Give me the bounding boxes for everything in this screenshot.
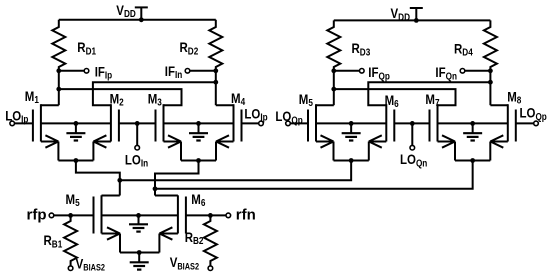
svg-text:rfp: rfp	[27, 207, 47, 224]
node IF_In cross-couple branch	[213, 80, 218, 85]
node VDD tap (right)	[414, 18, 419, 23]
node LO_In junction	[135, 121, 140, 126]
transistor M1 gate bar	[32, 110, 34, 142]
node M7-M8 bulk junction	[470, 121, 475, 126]
wire M5-M6 left source line	[316, 141, 334, 143]
wire M1-M2 tail bus	[58, 160, 93, 162]
wire M8 drain stub	[490, 104, 507, 106]
terminal rfp	[49, 213, 54, 218]
resistor RD1	[52, 20, 65, 71]
VDD supply symbol (left)	[135, 6, 148, 8]
wire IF_Qp to M7 drain (inner staple)	[334, 89, 456, 105]
node LO_Qn junction	[410, 121, 415, 126]
wire LO_Qn drop	[411, 123, 413, 145]
resistor RB2	[204, 215, 217, 266]
wire M8 gate to LO_Qp (right)	[516, 122, 534, 124]
node RD2 bottom / IF_In	[213, 68, 218, 73]
node M5-M6 bulk junction	[349, 121, 354, 126]
resistor RD3	[327, 20, 340, 70]
wire M7-M8 left source line	[438, 141, 456, 143]
wire IF_In riser	[215, 71, 217, 105]
ground RF tail	[138, 253, 140, 263]
wire M3-M4 right source drop	[215, 142, 217, 161]
wire IF_Qn to M6 drain (outer staple)	[368, 82, 490, 105]
wire M7-M8 right source line	[490, 141, 508, 143]
node M7-M8 tail junction	[470, 158, 475, 163]
wire RF M5 drain stub	[102, 195, 120, 197]
M3-M4 left source arrow	[168, 135, 181, 141]
terminal LO_Qn	[410, 145, 415, 150]
wire node N to M7-M8 tail (long)	[155, 161, 473, 189]
transistor M2 gate bar	[118, 110, 120, 142]
terminal IF_In	[185, 69, 190, 74]
wire M5-M6 left source drop	[333, 142, 335, 161]
transistor M2 channel bar	[110, 104, 112, 141]
wire M2 gate to M3 gate	[119, 122, 156, 124]
wire IF_Ip to M3 drain (inner staple)	[59, 89, 182, 105]
wire M1-M2 bulk	[41, 122, 111, 124]
wire RF pair bulk	[102, 214, 178, 216]
terminal VBIAS2 (left)	[68, 266, 73, 271]
node IF_Qn cross-couple branch	[488, 80, 493, 85]
transistor M6 (RF) gate bar	[185, 197, 187, 234]
M1-M2 left source arrow	[45, 135, 58, 141]
ground M5-M6 bulk	[350, 123, 352, 133]
wire M5-M6 tail bus	[334, 160, 369, 162]
wire RF tail bus	[120, 252, 159, 254]
node N branch junction	[153, 186, 158, 191]
VDD supply rail (Q-quad)	[334, 19, 491, 21]
wire LO_Qp to M5 gate	[290, 122, 308, 124]
node M3-M4 tail junction	[196, 158, 201, 163]
wire M6 gate to M7 gate	[394, 122, 429, 124]
transistor M8 gate bar	[515, 110, 517, 142]
wire LO_Ip to M1 gate	[15, 122, 33, 124]
node VDD tap (left)	[139, 17, 144, 22]
transistor M1 channel bar	[40, 104, 42, 141]
transistor M4 channel bar	[233, 104, 235, 141]
wire M7-M8 tail bus	[455, 160, 490, 162]
terminal rfn	[226, 213, 231, 218]
wire RF M6 source line	[159, 233, 178, 235]
terminal LO_Qp (right)	[534, 121, 539, 126]
node rfp / RB1 junction	[68, 213, 73, 218]
wire RF M6 source drop	[158, 234, 160, 253]
wire M3-M4 bulk	[164, 122, 234, 124]
wire RF M5 source line	[102, 233, 121, 235]
ground M7-M8 bulk	[472, 123, 474, 133]
transistor M6 gate bar	[393, 110, 395, 142]
M7-M8 right source arrow	[490, 135, 503, 141]
wire IF_Qp riser	[333, 71, 335, 105]
node IF_Ip cross-couple branch	[56, 87, 61, 92]
wire M1-M2 left source drop	[57, 142, 59, 161]
wire M1-M2 left source line	[41, 141, 59, 143]
transistor M5 gate bar	[307, 110, 309, 142]
wire node N: M3-M4 tail down to RF M6 drain	[155, 161, 199, 196]
wire M7-M8 bulk	[438, 122, 508, 124]
resistor RD4	[484, 20, 497, 70]
node rfn / RB2 junction	[208, 213, 213, 218]
wire node P to M5-M6 tail (long)	[120, 161, 351, 181]
ground M1-M2 bulk	[75, 123, 77, 133]
wire IF_Qp stub	[334, 70, 360, 72]
terminal LO_Qp (left)	[286, 121, 291, 126]
terminal LO_Ip (left)	[10, 121, 15, 126]
wire M6 gate to rfn	[186, 214, 226, 216]
M3-M4 right source arrow	[216, 135, 229, 141]
node RF bulk junction	[136, 213, 141, 218]
terminal IF_Qn	[460, 69, 465, 74]
ground RF pair bulk	[138, 215, 140, 224]
transistor M8 channel bar	[507, 104, 509, 141]
wire M5-M6 right source drop	[368, 142, 370, 161]
terminal IF_Ip	[84, 69, 89, 74]
wire M1 drain stub	[41, 104, 59, 106]
node M1-M2 bulk junction	[74, 121, 79, 126]
transistor M3 gate bar	[155, 110, 157, 142]
wire M4 drain stub	[216, 104, 234, 106]
wire M5 drain stub	[316, 104, 334, 106]
node RD3 bottom / IF_Qp	[331, 68, 336, 73]
wire M1-M2 right source line	[93, 141, 111, 143]
svg-text:rfn: rfn	[236, 207, 256, 224]
wire node P: M1-M2 tail down to RF M5 drain	[76, 161, 120, 196]
RF M5 source arrow	[107, 227, 120, 233]
wire IF_Ip riser	[58, 71, 60, 105]
M7-M8 left source arrow	[442, 135, 455, 141]
wire LO_In drop	[136, 123, 138, 145]
node RF tail junction	[137, 250, 142, 255]
VDD supply rail (I-quad)	[59, 19, 216, 21]
transistor M7 gate bar	[429, 110, 431, 142]
wire RF M6 drain stub	[155, 195, 178, 197]
wire M3-M4 tail bus	[181, 160, 216, 162]
node P branch junction	[117, 178, 122, 183]
M5-M6 right source arrow	[369, 135, 382, 141]
wire IF_Qn riser	[489, 71, 491, 105]
node RD4 bottom / IF_Qn	[488, 68, 493, 73]
terminal VBIAS2 (right)	[208, 266, 213, 271]
wire M4 gate to LO_Ip (right)	[242, 122, 259, 124]
wire RF M5 source drop	[119, 234, 121, 253]
wire IF_Ip stub	[59, 70, 84, 72]
terminal LO_Ip (right)	[259, 121, 264, 126]
wire M3-M4 left source drop	[180, 142, 182, 161]
wire M1-M2 right source drop	[92, 142, 94, 161]
wire IF_Qn stub	[465, 70, 491, 72]
resistor RB1	[64, 215, 77, 266]
wire M7-M8 right source drop	[489, 142, 491, 161]
transistor M7 channel bar	[437, 104, 439, 141]
M1-M2 right source arrow	[93, 135, 106, 141]
wire M5-M6 right source line	[369, 141, 387, 143]
transistor M6 channel bar	[385, 104, 387, 141]
VDD supply symbol (right)	[410, 7, 423, 9]
RF M6 source arrow	[159, 227, 172, 233]
transistor M5 (RF) channel bar	[101, 195, 103, 233]
node IF_Qp cross-couple branch	[331, 87, 336, 92]
wire M7-M8 left source drop	[454, 142, 456, 161]
node M1-M2 tail junction	[74, 158, 79, 163]
resistor RD2	[209, 20, 222, 71]
transistor M4 gate bar	[241, 110, 243, 142]
node RD1 bottom / IF_Ip	[56, 68, 61, 73]
wire M3-M4 right source line	[216, 141, 234, 143]
wire IF_In stub	[190, 70, 216, 72]
wire IF_In to M2 drain (outer staple)	[93, 82, 216, 105]
transistor M5 (RF) gate bar	[93, 197, 95, 234]
ground M3-M4 bulk	[198, 123, 200, 133]
transistor M3 channel bar	[163, 104, 165, 141]
terminal IF_Qp	[360, 69, 365, 74]
terminal LO_In	[135, 145, 140, 150]
node M5-M6 tail junction	[349, 158, 354, 163]
transistor M6 (RF) channel bar	[177, 195, 179, 233]
wire rfp to M5 gate	[54, 214, 94, 216]
transistor M5 channel bar	[315, 104, 317, 141]
M5-M6 left source arrow	[321, 135, 334, 141]
node M3-M4 bulk junction	[196, 121, 201, 126]
wire M3-M4 left source line	[164, 141, 182, 143]
wire M5-M6 bulk	[316, 122, 386, 124]
